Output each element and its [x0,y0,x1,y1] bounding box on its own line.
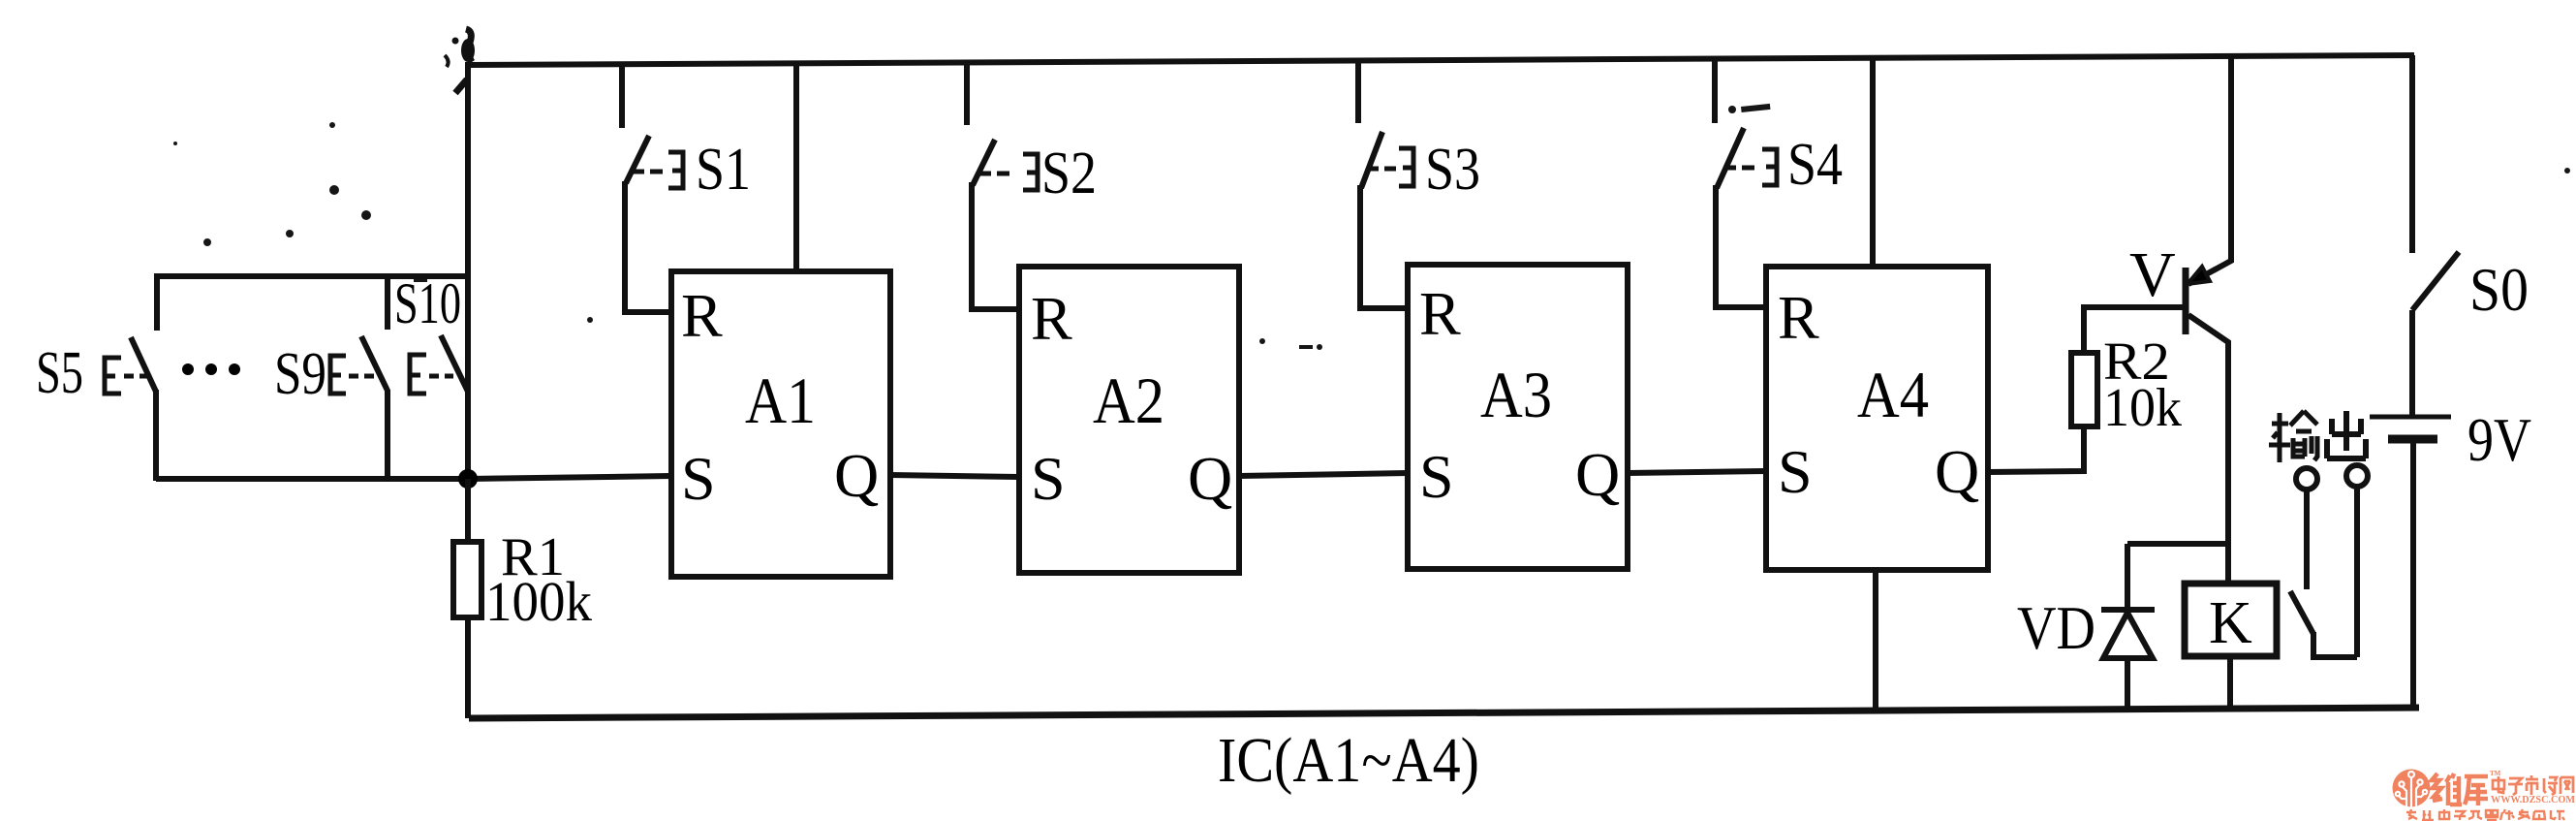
svg-text:S2: S2 [1041,141,1097,206]
flip-flop A3 [1408,265,1628,569]
svg-text:A1: A1 [745,363,816,437]
terminal output right [2346,465,2368,657]
svg-text:WWW.DZSC.COM: WWW.DZSC.COM [2491,795,2576,805]
svg-text:VD: VD [2017,593,2095,662]
svg-text:R: R [1419,279,1461,348]
label S10 [394,271,461,335]
svg-text:S: S [681,444,716,513]
watermark logo circle [2393,770,2431,808]
label R1 [501,527,565,587]
switch S9 [330,276,388,479]
wire bottom bus [469,708,2419,718]
svg-text:9V: 9V [2467,405,2531,474]
switch S2 [967,63,1038,309]
svg-text:R: R [1031,284,1072,353]
label S0 [2469,255,2529,324]
svg-text:Q: Q [834,441,879,510]
svg-text:R: R [1778,283,1819,352]
wire A2 Q to A3 S [1239,473,1408,476]
watermark TM [2490,770,2501,777]
watermark text WWW.DZSC.COM [2491,795,2576,805]
resistor R1 [453,479,481,718]
switch S0 [2412,55,2459,310]
label R2 [2103,332,2170,391]
label 10k [2103,378,2182,438]
switch S10 [410,335,468,394]
label 输出 [2269,411,2366,462]
flip-flop A1 [671,271,890,577]
wire A4 Q to R2 bottom [1988,426,2084,472]
resistor R2 [2071,307,2184,426]
wire top bus to A1 top [793,63,799,271]
label S5 [36,340,83,406]
svg-text:Q: Q [1188,444,1232,513]
flip-flop A2 [1019,267,1239,573]
wire S4 to A4 R pin [1713,304,1766,310]
svg-text:A2: A2 [1093,363,1164,437]
svg-text:S3: S3 [1425,137,1480,203]
node junction at S line [458,469,478,489]
wire top supply bus [468,55,2414,65]
relay contact K-1 [2290,591,2357,657]
label VD [2017,593,2095,662]
wire A3 Q to A4 S [1628,471,1766,473]
wire top bus to A4 top [1870,57,1876,267]
label S3 [1425,137,1480,203]
wire S2 to A2 R pin [969,306,1019,312]
wire VD top jog to relay wire [2127,541,2228,547]
wire S1 to A1 R pin [622,309,671,315]
flip-flop A4 [1766,267,1988,570]
battery 9V [2370,310,2451,708]
label S4 [1787,132,1843,198]
label IC(A1~A4) [1218,725,1479,796]
svg-text:S: S [1031,444,1066,513]
label S2 [1041,141,1097,206]
transistor V [2186,55,2231,584]
svg-text:S10: S10 [394,271,461,335]
node dots (ellipsis between S5 and S9) [182,363,240,375]
switch S5 [105,273,157,481]
svg-text:S: S [1419,442,1454,511]
svg-text:IC(A1~A4): IC(A1~A4) [1218,725,1479,796]
svg-text:K: K [2209,590,2252,656]
watermark text 电子市场网 [2493,775,2573,795]
switch S3 [1358,61,1413,308]
wire left main vertical (top bus to S node) [445,29,475,481]
svg-text:V: V [2129,239,2176,310]
svg-text:S5: S5 [36,340,83,406]
svg-text:S4: S4 [1787,132,1843,198]
svg-text:S0: S0 [2469,255,2529,324]
label 100k [485,570,592,633]
wire switch group bottom rail / S node wire to A1 [156,476,671,479]
svg-text:Q: Q [1575,440,1620,509]
watermark text 专业电子元器件交易网站 [2406,809,2564,820]
wire switch group top rail [157,273,468,279]
svg-text:Q: Q [1935,437,1979,506]
svg-text:S: S [1778,437,1813,506]
svg-text:TM: TM [2490,770,2501,777]
wire A1 Q to A2 S [890,475,1019,477]
relay K [2185,584,2277,710]
label S9 [274,341,326,407]
switch S4 [1715,59,1777,307]
svg-text:R: R [681,281,723,350]
svg-text:S9: S9 [274,341,326,407]
switch S1 [622,64,683,312]
label S1 [696,137,751,203]
wire A4 bottom to bottom bus [1873,570,1878,711]
svg-text:A4: A4 [1857,358,1929,431]
wire S3 to A3 R pin [1357,305,1408,311]
watermark text 维库 [2432,774,2488,805]
label V [2129,239,2176,310]
terminal output left [2296,468,2317,589]
diode VD [2101,544,2155,710]
svg-text:10k: 10k [2103,378,2182,438]
label 9V [2467,405,2531,474]
svg-text:100k: 100k [485,570,592,633]
svg-text:A3: A3 [1480,358,1552,431]
svg-text:S1: S1 [696,137,751,203]
